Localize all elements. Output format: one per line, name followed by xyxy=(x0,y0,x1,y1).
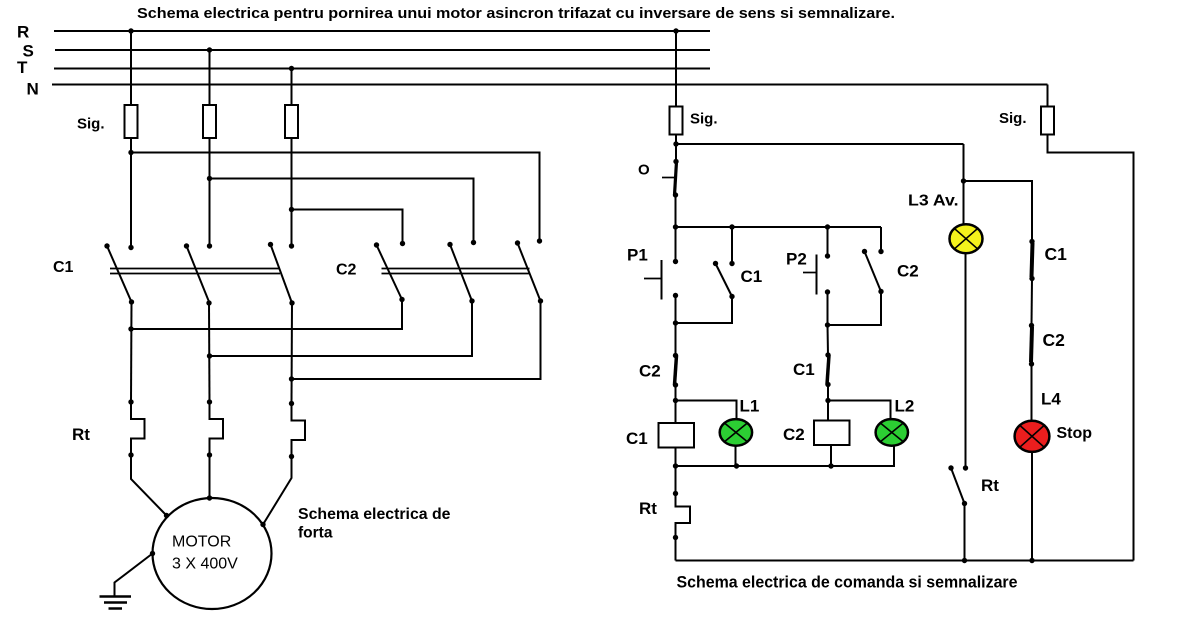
svg-text:T: T xyxy=(17,58,28,77)
svg-text:C2: C2 xyxy=(336,262,357,279)
svg-text:Stop: Stop xyxy=(1057,425,1093,442)
svg-text:P2: P2 xyxy=(786,250,807,269)
svg-text:3 X 400V: 3 X 400V xyxy=(172,556,238,573)
svg-text:Sig.: Sig. xyxy=(999,110,1027,127)
svg-text:C2: C2 xyxy=(639,362,661,381)
svg-text:C1: C1 xyxy=(626,429,648,448)
svg-text:N: N xyxy=(27,80,39,99)
svg-text:L4: L4 xyxy=(1041,390,1061,409)
svg-text:C2: C2 xyxy=(1043,330,1066,350)
svg-text:Rt: Rt xyxy=(981,476,999,495)
svg-text:C1: C1 xyxy=(741,267,763,286)
svg-text:L3 Av.: L3 Av. xyxy=(908,193,959,210)
svg-text:O: O xyxy=(638,162,650,179)
svg-text:P1: P1 xyxy=(627,246,648,265)
svg-text:C2: C2 xyxy=(783,425,805,444)
svg-text:Schema electrica de: Schema electrica de xyxy=(298,506,451,523)
svg-text:C1: C1 xyxy=(1045,244,1068,264)
svg-text:L2: L2 xyxy=(895,397,915,416)
svg-text:Rt: Rt xyxy=(72,425,90,444)
svg-text:Rt: Rt xyxy=(639,499,657,518)
svg-text:MOTOR: MOTOR xyxy=(172,534,231,551)
svg-text:forta: forta xyxy=(298,525,333,542)
svg-text:C2: C2 xyxy=(897,262,919,281)
svg-text:Schema electrica pentru pornir: Schema electrica pentru pornirea unui mo… xyxy=(137,5,895,22)
svg-text:C1: C1 xyxy=(53,259,74,276)
svg-text:Sig.: Sig. xyxy=(690,111,718,128)
svg-text:R: R xyxy=(17,23,29,42)
svg-text:Sig.: Sig. xyxy=(77,116,105,133)
svg-text:Schema electrica de comanda si: Schema electrica de comanda si semnaliza… xyxy=(677,574,1018,592)
svg-text:C1: C1 xyxy=(793,360,815,379)
svg-text:L1: L1 xyxy=(740,397,760,416)
